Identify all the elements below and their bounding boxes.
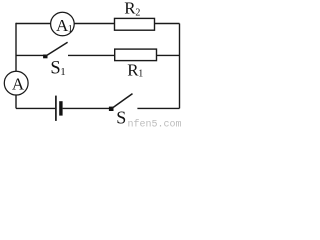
svg-text:nfen5.com: nfen5.com [128, 119, 182, 130]
ammeter A1 [51, 12, 75, 36]
wire R2 to right rail [155, 23, 180, 25]
svg-text:S: S [116, 108, 126, 128]
svg-text:1: 1 [68, 24, 73, 35]
wire middle left (to S1) [16, 54, 44, 56]
wire R1 to right rail [157, 54, 180, 56]
svg-text:A: A [12, 74, 25, 93]
ammeter A [4, 71, 28, 95]
wire S1 to R1 [68, 54, 115, 56]
wire A1 to R2 [74, 23, 114, 25]
svg-text:1: 1 [138, 69, 143, 80]
wire left rail lower [15, 95, 17, 108]
battery long plate [55, 96, 57, 121]
switch S [109, 107, 114, 111]
svg-text:1: 1 [60, 66, 65, 78]
svg-text:R: R [124, 0, 136, 18]
svg-text:S: S [50, 58, 60, 78]
resistor R2 [115, 18, 155, 30]
wire S to bottom-right corner [137, 107, 179, 109]
wire battery to S [63, 107, 111, 109]
battery short thick plate [59, 101, 62, 115]
svg-text:2: 2 [135, 7, 140, 18]
wire right rail vertical [179, 24, 181, 109]
wire bottom left to battery [16, 107, 55, 109]
wire top-left horizontal [16, 23, 51, 25]
switch S1 [43, 55, 47, 59]
wire left rail upper [15, 23, 17, 72]
resistor R1 [115, 49, 157, 61]
